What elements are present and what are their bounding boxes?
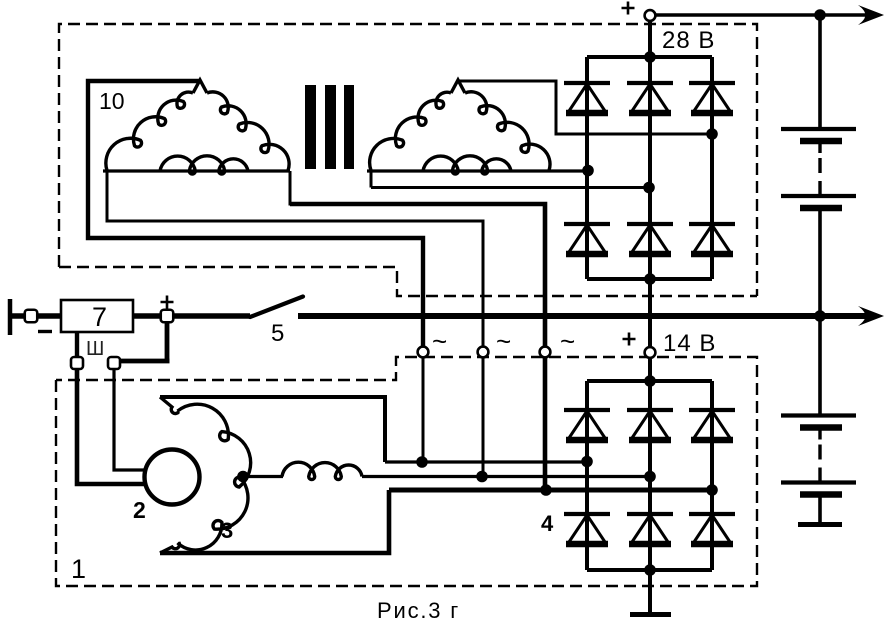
winding 2 left step + link to bridge col2 <box>371 171 649 188</box>
node ~3 <box>540 347 551 358</box>
lower bridge top bus <box>587 379 712 383</box>
dashed box 1: generator rotor/rectifier section (bottom) <box>56 357 757 586</box>
battery GB2 (14V) <box>781 416 856 495</box>
svg-text:~: ~ <box>560 326 575 356</box>
diode VD1 <box>564 83 610 113</box>
winding 10 apex lead (to phase1 ~) <box>88 81 423 346</box>
wire phase1 vertical (below ~ node) <box>422 358 425 462</box>
wire plus node down-left to field node <box>119 322 170 361</box>
diode VD3 <box>689 83 735 113</box>
battery GB1 (28V) <box>781 129 856 208</box>
node ~1 <box>418 347 429 358</box>
wire inductor to bridge col2 (y476) <box>362 475 650 478</box>
wire 28V minus to 14V plus <box>648 279 652 347</box>
label plus 14V <box>623 333 636 346</box>
junction col3 / apex lead <box>706 128 718 140</box>
wire winding3 bottom arm <box>160 490 389 553</box>
ground symbol <box>630 612 671 617</box>
svg-text:4: 4 <box>541 511 554 536</box>
junction main bus / battery column <box>814 310 826 322</box>
diode VD10 <box>564 514 610 544</box>
svg-text:3: 3 <box>221 518 233 543</box>
wire battery column top <box>818 15 822 128</box>
winding 10 right riser <box>289 171 292 206</box>
junction 28V bus / battery column <box>814 9 826 21</box>
svg-text:Ш: Ш <box>86 338 104 360</box>
node B- (open square) <box>25 310 38 323</box>
wire phase line to bridge col3 (y490) <box>389 488 712 493</box>
diode VD8 <box>627 410 673 440</box>
diode VD4 <box>564 224 610 254</box>
junction top bus <box>644 51 656 63</box>
main bus arrow (right, 14V output) <box>820 313 866 319</box>
diode VD6 <box>689 224 735 254</box>
svg-text:7: 7 <box>92 302 107 332</box>
lower bridge bottom bus <box>587 568 712 572</box>
wire node to regulator <box>37 313 62 319</box>
battery2 end plate <box>798 522 842 527</box>
svg-text:28 В: 28 В <box>662 27 715 54</box>
wire phase3 vertical (below ~ node) <box>543 358 548 490</box>
inductor (suppression coil) <box>282 462 362 479</box>
winding 10 left drop <box>106 171 109 221</box>
wire winding3 top arm <box>160 397 385 462</box>
node Sh2 (open square) <box>108 357 120 369</box>
lower bridge col1 <box>585 381 589 570</box>
svg-text:~: ~ <box>496 326 511 356</box>
main bus wire (switch to right edge) <box>298 313 820 319</box>
field winding 3 (crescent) <box>160 397 179 414</box>
node Sh1 (open square) <box>71 357 83 369</box>
regulator box U7 <box>61 300 133 332</box>
label plus 28V <box>622 2 635 15</box>
wire 28V terminal lead <box>648 21 652 57</box>
top bridge col3 <box>710 57 714 279</box>
label plus (regulator) <box>161 296 174 309</box>
wire bridge to ground <box>648 570 652 613</box>
top bridge bottom bus <box>587 277 712 281</box>
junction col2 / winding2 link <box>643 182 655 194</box>
junction phase2/inductor <box>476 471 488 483</box>
wire plus node to switch <box>173 313 250 319</box>
lower bridge col3 <box>710 381 714 570</box>
label minus <box>38 330 52 333</box>
junction lower top bus <box>644 375 656 387</box>
junction phase1/top-arm <box>416 456 428 468</box>
wire Sh2 to field brush (upper) <box>114 369 147 470</box>
svg-text:2: 2 <box>133 497 146 523</box>
svg-text:1: 1 <box>71 554 86 584</box>
wire regulator to Sh terminal <box>75 332 79 358</box>
junction col2 lower <box>644 471 656 483</box>
junction lower bottom bus <box>644 564 656 576</box>
diode VD11 <box>627 514 673 544</box>
terminal minus (left) <box>8 299 13 335</box>
svg-text:Рис.3 г: Рис.3 г <box>377 598 460 623</box>
diode VD5 <box>627 224 673 254</box>
winding 2 apex lead (to bridge col3) <box>458 81 712 134</box>
top bridge col2 <box>648 57 652 279</box>
wire field node to inductor <box>242 475 283 478</box>
top bridge col1 <box>585 57 589 279</box>
wire phase line to bridge col1 (y462) <box>385 460 587 463</box>
winding 10 bottom link (y221 to phase2 ~) <box>106 221 484 346</box>
winding 10 bottom coils <box>160 156 248 174</box>
node +14V <box>645 347 656 358</box>
winding 2 bottom coils <box>423 156 511 174</box>
winding 2 baseline <box>367 169 588 172</box>
junction col3 lower <box>706 484 718 496</box>
dashed box: generator stator section (top) <box>59 24 757 296</box>
wire battery1 to main bus <box>818 211 822 316</box>
node +28V <box>645 10 656 21</box>
node plus (open square) <box>161 310 174 323</box>
wire phase2 vertical (below ~ node) <box>482 358 485 476</box>
winding 10 baseline <box>103 169 290 172</box>
wire battery2 tail <box>818 497 822 523</box>
diode VD2 <box>627 83 673 113</box>
wire regulator to plus node <box>133 313 161 319</box>
wire terminal to node <box>10 313 31 319</box>
svg-text:~: ~ <box>432 326 447 356</box>
28V bus arrow <box>820 13 868 17</box>
lower bridge col2 <box>648 381 652 570</box>
wire 14V node to bridge <box>648 358 652 381</box>
junction col1 / winding2 baseline <box>582 165 594 177</box>
svg-text:14 В: 14 В <box>663 330 716 357</box>
diode VD7 <box>564 410 610 440</box>
winding 10 link (y204 to phase3 ~) <box>290 204 545 346</box>
wire 28V to battery bus <box>655 13 820 17</box>
node ~2 <box>478 347 489 358</box>
field rotor circle 2 <box>145 450 200 505</box>
switch 5 blade <box>250 297 303 318</box>
svg-text:10: 10 <box>99 88 125 114</box>
junction bottom bus <box>644 273 656 285</box>
wire Sh1 to field brush (lower) <box>77 369 146 484</box>
stator core bars <box>305 85 354 169</box>
wire main bus to battery2 <box>818 316 822 414</box>
svg-text:5: 5 <box>271 320 284 347</box>
diode VD9 <box>689 410 735 440</box>
winding 10 tent coils <box>193 80 207 93</box>
diode VD12 <box>689 514 735 544</box>
junction col1 lower <box>581 456 593 468</box>
top bridge top bus <box>587 55 712 59</box>
junction field/suppression node <box>237 471 249 483</box>
winding 2 tent coils <box>451 80 465 93</box>
junction phase3/bottom-arm <box>540 484 552 496</box>
